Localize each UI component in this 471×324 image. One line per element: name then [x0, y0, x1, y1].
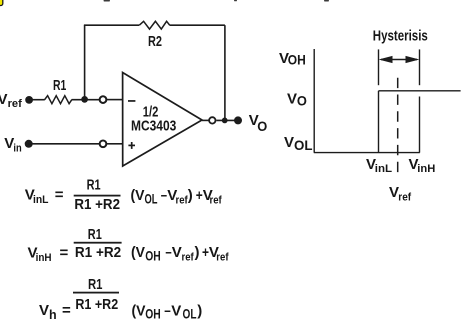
svg-text:=: = — [62, 302, 71, 319]
graph: hysteresis double arrow — [379, 56, 420, 63]
op-amp U1 triangle (1/2 MC3403) — [123, 73, 202, 167]
wire: op-amp output to pin circle — [202, 119, 209, 121]
svg-text:R1: R1 — [53, 77, 66, 94]
svg-text:–: – — [164, 302, 171, 319]
graph: VinL transition edge — [378, 91, 380, 153]
svg-text:ref: ref — [8, 98, 23, 110]
wire: inverting pin to op-amp — [107, 99, 123, 101]
svg-text:OH: OH — [145, 249, 161, 264]
open circle: noninverting input pin — [100, 140, 107, 147]
svg-text:): ) — [197, 302, 202, 319]
svg-text:inH: inH — [36, 252, 52, 264]
svg-text:ref: ref — [176, 194, 188, 206]
svg-text:O: O — [257, 118, 267, 134]
svg-text:–: – — [165, 244, 171, 261]
svg-text:MC3403: MC3403 — [131, 118, 176, 135]
node: junction R1 / R2 feedback — [81, 96, 88, 103]
label VinL (graph) — [366, 156, 392, 175]
terminal dot Vref input — [25, 96, 33, 104]
svg-text:R1: R1 — [88, 276, 103, 293]
scan artifacts (cropped text above) — [104, 0, 330, 2]
equation Vh — [39, 276, 202, 322]
svg-text:): ) — [195, 244, 200, 261]
svg-text:ref: ref — [398, 191, 411, 203]
graph: hysteresis left marker — [378, 49, 380, 85]
svg-text:=: = — [60, 245, 69, 262]
svg-text:): ) — [188, 187, 193, 204]
svg-text:OL: OL — [145, 191, 158, 206]
label VO (graph) — [287, 90, 307, 108]
svg-text:V: V — [39, 302, 49, 319]
label Vref — [0, 91, 22, 110]
graph: Vref dashed line — [397, 78, 399, 176]
svg-text:OL: OL — [183, 307, 197, 322]
wire: feedback top right segment — [170, 24, 225, 26]
wire: R1 to inverting pin circle — [72, 99, 100, 101]
svg-text:ref: ref — [216, 252, 228, 264]
op-amp noninverting (plus) sign — [128, 142, 135, 149]
svg-text:V: V — [171, 302, 181, 319]
resistor R1 — [45, 96, 72, 104]
yellow margin marker (cropped) — [0, 0, 3, 6]
wire: Vref dot to R1 — [29, 99, 45, 101]
wire: output pin to terminal — [216, 119, 238, 121]
graph: output high level line — [379, 90, 461, 92]
svg-text:inH: inH — [417, 163, 435, 175]
svg-text:ref: ref — [182, 252, 194, 264]
equation VinL — [25, 176, 222, 213]
svg-text:V: V — [172, 244, 182, 261]
svg-text:(V: (V — [131, 187, 145, 204]
svg-text:R1 +R2: R1 +R2 — [74, 196, 120, 213]
wire: Vin to noninverting pin — [29, 143, 100, 145]
wire: feedback left vertical — [84, 25, 86, 100]
svg-text:OH: OH — [145, 307, 161, 322]
label VOL — [284, 134, 313, 153]
label VOH — [279, 50, 306, 68]
svg-text:R1 +R2: R1 +R2 — [75, 296, 118, 313]
svg-text:(V: (V — [132, 302, 146, 319]
svg-text:V: V — [284, 134, 294, 151]
label VO (output) — [249, 112, 268, 134]
svg-text:Hysterisis: Hysterisis — [373, 27, 428, 44]
svg-text:O: O — [297, 93, 307, 109]
svg-text:inL: inL — [33, 194, 49, 206]
node: output feedback junction — [222, 118, 228, 124]
wire: feedback top left segment — [84, 24, 139, 26]
svg-text:R2: R2 — [148, 33, 162, 50]
wire: noninverting pin to op-amp — [107, 143, 123, 145]
label Vref (graph) — [389, 184, 411, 203]
svg-text:ref: ref — [210, 194, 222, 206]
svg-text:OL: OL — [294, 138, 313, 153]
svg-text:–: – — [161, 187, 167, 204]
svg-text:=: = — [55, 187, 64, 204]
graph: y-axis — [313, 49, 315, 153]
open circle: output pin — [209, 117, 215, 123]
svg-text:(V: (V — [131, 244, 145, 261]
svg-text:in: in — [13, 143, 22, 155]
svg-text:h: h — [49, 308, 57, 322]
svg-text:V: V — [287, 90, 297, 107]
graph: x-axis — [314, 152, 420, 154]
svg-text:R1: R1 — [87, 176, 101, 193]
svg-text:R1: R1 — [88, 226, 102, 243]
svg-text:OH: OH — [288, 53, 306, 68]
svg-text:V: V — [0, 91, 8, 108]
graph: hysteresis right marker — [419, 49, 421, 85]
wire: feedback right vertical — [224, 25, 226, 120]
graph: VinH transition edge — [419, 97, 421, 153]
resistor R2 — [139, 21, 169, 29]
op-amp inverting (minus) sign — [128, 100, 135, 102]
terminal dot output — [234, 116, 242, 124]
label Vin — [4, 135, 22, 154]
svg-text:inL: inL — [375, 163, 393, 175]
svg-text:R1 +R2: R1 +R2 — [75, 244, 121, 261]
open circle: inverting input pin — [100, 96, 107, 103]
label VinH (graph) — [409, 156, 436, 175]
terminal dot Vin input — [25, 140, 33, 148]
equation VinH — [28, 226, 229, 264]
